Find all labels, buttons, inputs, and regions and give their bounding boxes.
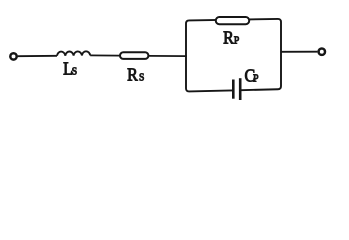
wire from inductor to resistor Rs [90, 54, 120, 56]
capacitor CP plate left [232, 80, 235, 99]
svg-text:R: R [127, 64, 138, 84]
value label Rp [223, 27, 239, 47]
svg-text:S: S [72, 66, 78, 78]
right output terminal [319, 49, 325, 55]
left input terminal [10, 53, 16, 59]
value label Ls [63, 59, 77, 79]
value label Rs [127, 64, 144, 84]
wire: parallel-network frame (left vertical, top rail, right vertical, bottom rail with capacitor gap) [186, 19, 281, 91]
value label Cp [245, 66, 259, 86]
resistor RP (box) [216, 17, 249, 24]
wire from Rs to parallel network [148, 55, 186, 57]
resistor RS (box) [120, 52, 148, 59]
svg-text:R: R [223, 27, 234, 47]
svg-text:P: P [253, 73, 259, 85]
svg-text:P: P [234, 35, 240, 47]
capacitor CP plate right [239, 78, 242, 100]
inductor L_S [57, 51, 90, 55]
wire from parallel network to output terminal [281, 51, 317, 53]
svg-text:S: S [139, 72, 145, 84]
wire from input terminal to inductor [18, 55, 57, 57]
